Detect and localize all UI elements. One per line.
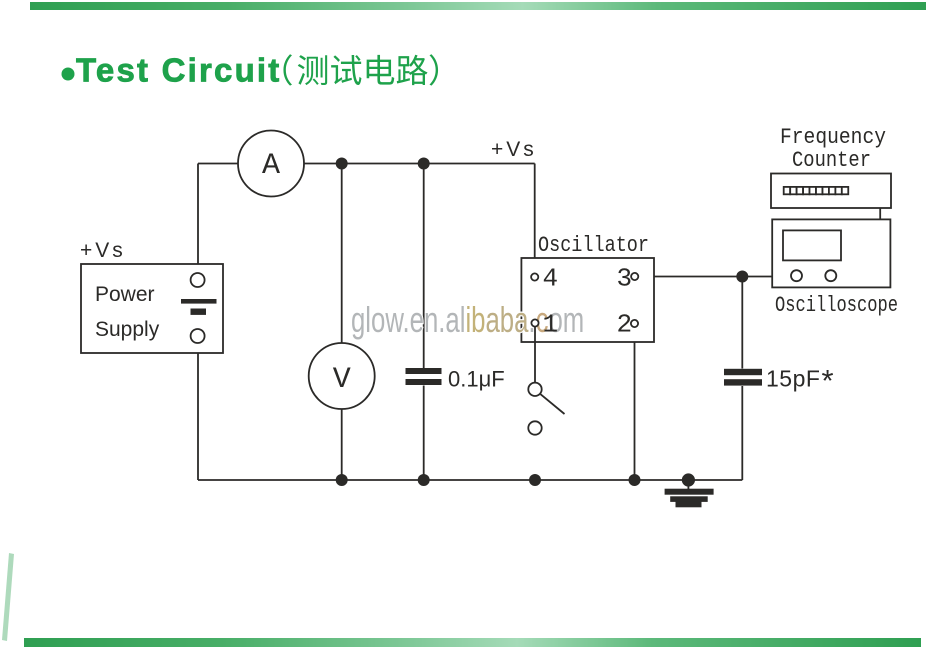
svg-text:+Vs: +Vs: [80, 239, 126, 262]
oscilloscope box: [772, 219, 890, 287]
node junction dot 5: [529, 474, 541, 486]
svg-text:Supply: Supply: [95, 318, 160, 341]
svg-text:Oscilloscope: Oscilloscope: [775, 293, 898, 318]
wire: +Vs corner down to oscillator pin 4: [534, 164, 536, 274]
svg-text:0.1μF: 0.1μF: [448, 367, 505, 392]
svg-text:3: 3: [617, 264, 633, 294]
power supply box PS1: [81, 264, 223, 353]
svg-text:4: 4: [543, 264, 559, 294]
frequency counter box: [771, 174, 891, 209]
svg-text:+Vs: +Vs: [491, 138, 537, 161]
svg-text:Test Circuit: Test Circuit: [76, 52, 281, 89]
top green bar: [30, 2, 926, 10]
capacitor C1 0.1uF plates: [406, 368, 442, 385]
wire: oscillator pin1 to switch: [534, 327, 536, 383]
oscilloscope knob 1: [791, 270, 802, 281]
wire: top rail +Vs: [198, 163, 535, 165]
svg-text:1: 1: [543, 310, 559, 340]
wire: left rail: [197, 164, 199, 481]
node junction dot 1: [336, 158, 348, 170]
wire: voltmeter branch: [341, 164, 343, 481]
battery terminal top: [191, 273, 205, 287]
battery terminal bottom: [191, 329, 205, 343]
ammeter A: [238, 131, 304, 197]
oscillator box U1: [521, 258, 654, 342]
bottom green bar: [24, 638, 921, 647]
node junction dot 6: [629, 474, 641, 486]
svg-text:2: 2: [617, 310, 633, 340]
wire: pin3 to oscilloscope: [638, 276, 772, 278]
wire: bottom rail: [198, 479, 742, 481]
wire: counter to oscilloscope link: [879, 208, 881, 219]
node junction dot 7: [736, 271, 748, 283]
pin 4: [531, 264, 558, 294]
title chinese (测试电路): [283, 54, 438, 85]
pin 3: [617, 264, 639, 294]
oscilloscope knob 2: [825, 270, 836, 281]
svg-text:Oscillator: Oscillator: [538, 233, 649, 258]
node junction dot 3: [336, 474, 348, 486]
svg-text:Frequency: Frequency: [780, 125, 886, 150]
wire: ground stem: [687, 480, 689, 489]
svg-text:15pF*: 15pF*: [766, 363, 834, 398]
node ground junction dot: [682, 473, 695, 486]
pin 2: [617, 310, 639, 340]
svg-text:Counter: Counter: [792, 148, 871, 173]
ground symbol: [665, 489, 714, 508]
wire: oscillator pin2 down to rail: [634, 327, 636, 480]
svg-text:V: V: [333, 363, 351, 397]
node junction dot 4: [418, 474, 430, 486]
pin 1: [531, 310, 558, 340]
capacitor C2 15pF plates: [724, 369, 762, 386]
wire: 0.1uF branch: [423, 164, 425, 481]
wire: scope junction down through 15pF to rail: [741, 277, 743, 481]
battery B1: [181, 299, 217, 315]
frequency counter display segments: [784, 187, 849, 194]
watermark glow.en.alibaba.com: [351, 300, 584, 340]
voltmeter V: [309, 343, 375, 409]
title bullet: [62, 68, 75, 81]
node junction dot 2: [418, 158, 430, 170]
svg-text:A: A: [262, 149, 280, 183]
svg-text:Power: Power: [95, 283, 155, 306]
switch S1: [528, 383, 564, 435]
bottom-left green streak: [2, 553, 14, 641]
oscilloscope screen: [783, 230, 841, 260]
